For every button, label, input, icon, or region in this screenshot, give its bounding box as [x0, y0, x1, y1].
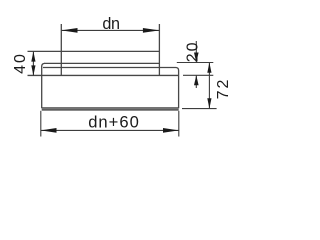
40 down arrow	[31, 65, 35, 75]
flange top edge with 40-extension to left	[28, 74, 179, 76]
dn left arrow	[61, 28, 77, 33]
cap right wall / dn extension line	[158, 24, 160, 76]
dn+60 right arrow	[163, 128, 179, 133]
40 up arrow	[31, 51, 35, 61]
20 up arrow	[194, 75, 199, 85]
dn dimension line	[61, 29, 159, 31]
72 down arrow	[207, 98, 211, 108]
band bottom line	[43, 67, 176, 69]
cap left wall / dn extension line	[60, 24, 62, 76]
svg-text:20: 20	[184, 40, 201, 62]
72 up arrow	[207, 63, 211, 73]
dn+60 left extension line	[40, 111, 42, 137]
dn+60 left arrow	[41, 128, 57, 133]
svg-text:40: 40	[12, 52, 29, 74]
body left edge with rounded top corner	[42, 63, 45, 108]
72 dimension line	[208, 63, 210, 109]
body right edge with rounded corner from band bottom	[176, 68, 179, 109]
svg-text:dn+60: dn+60	[88, 113, 140, 132]
body bottom rolled edge (double line)	[42, 107, 179, 109]
40 dimension line	[32, 51, 34, 75]
20 down arrow	[194, 53, 199, 63]
extension line B (flange top, right)	[183, 74, 213, 76]
extension line A (band top, right)	[177, 62, 214, 64]
svg-text:dn: dn	[102, 15, 119, 33]
bottom extension line (right, at body bottom)	[182, 108, 217, 110]
dn+60 right extension line	[178, 111, 180, 137]
top edge of cap with 40-extension to left	[28, 50, 160, 52]
svg-text:72: 72	[215, 78, 232, 100]
dn+60 dimension line	[41, 129, 179, 131]
dn right arrow	[143, 28, 160, 33]
20 dimension line upper part	[195, 41, 197, 63]
20 dimension line lower part	[195, 75, 197, 88]
band top line	[44, 62, 159, 64]
